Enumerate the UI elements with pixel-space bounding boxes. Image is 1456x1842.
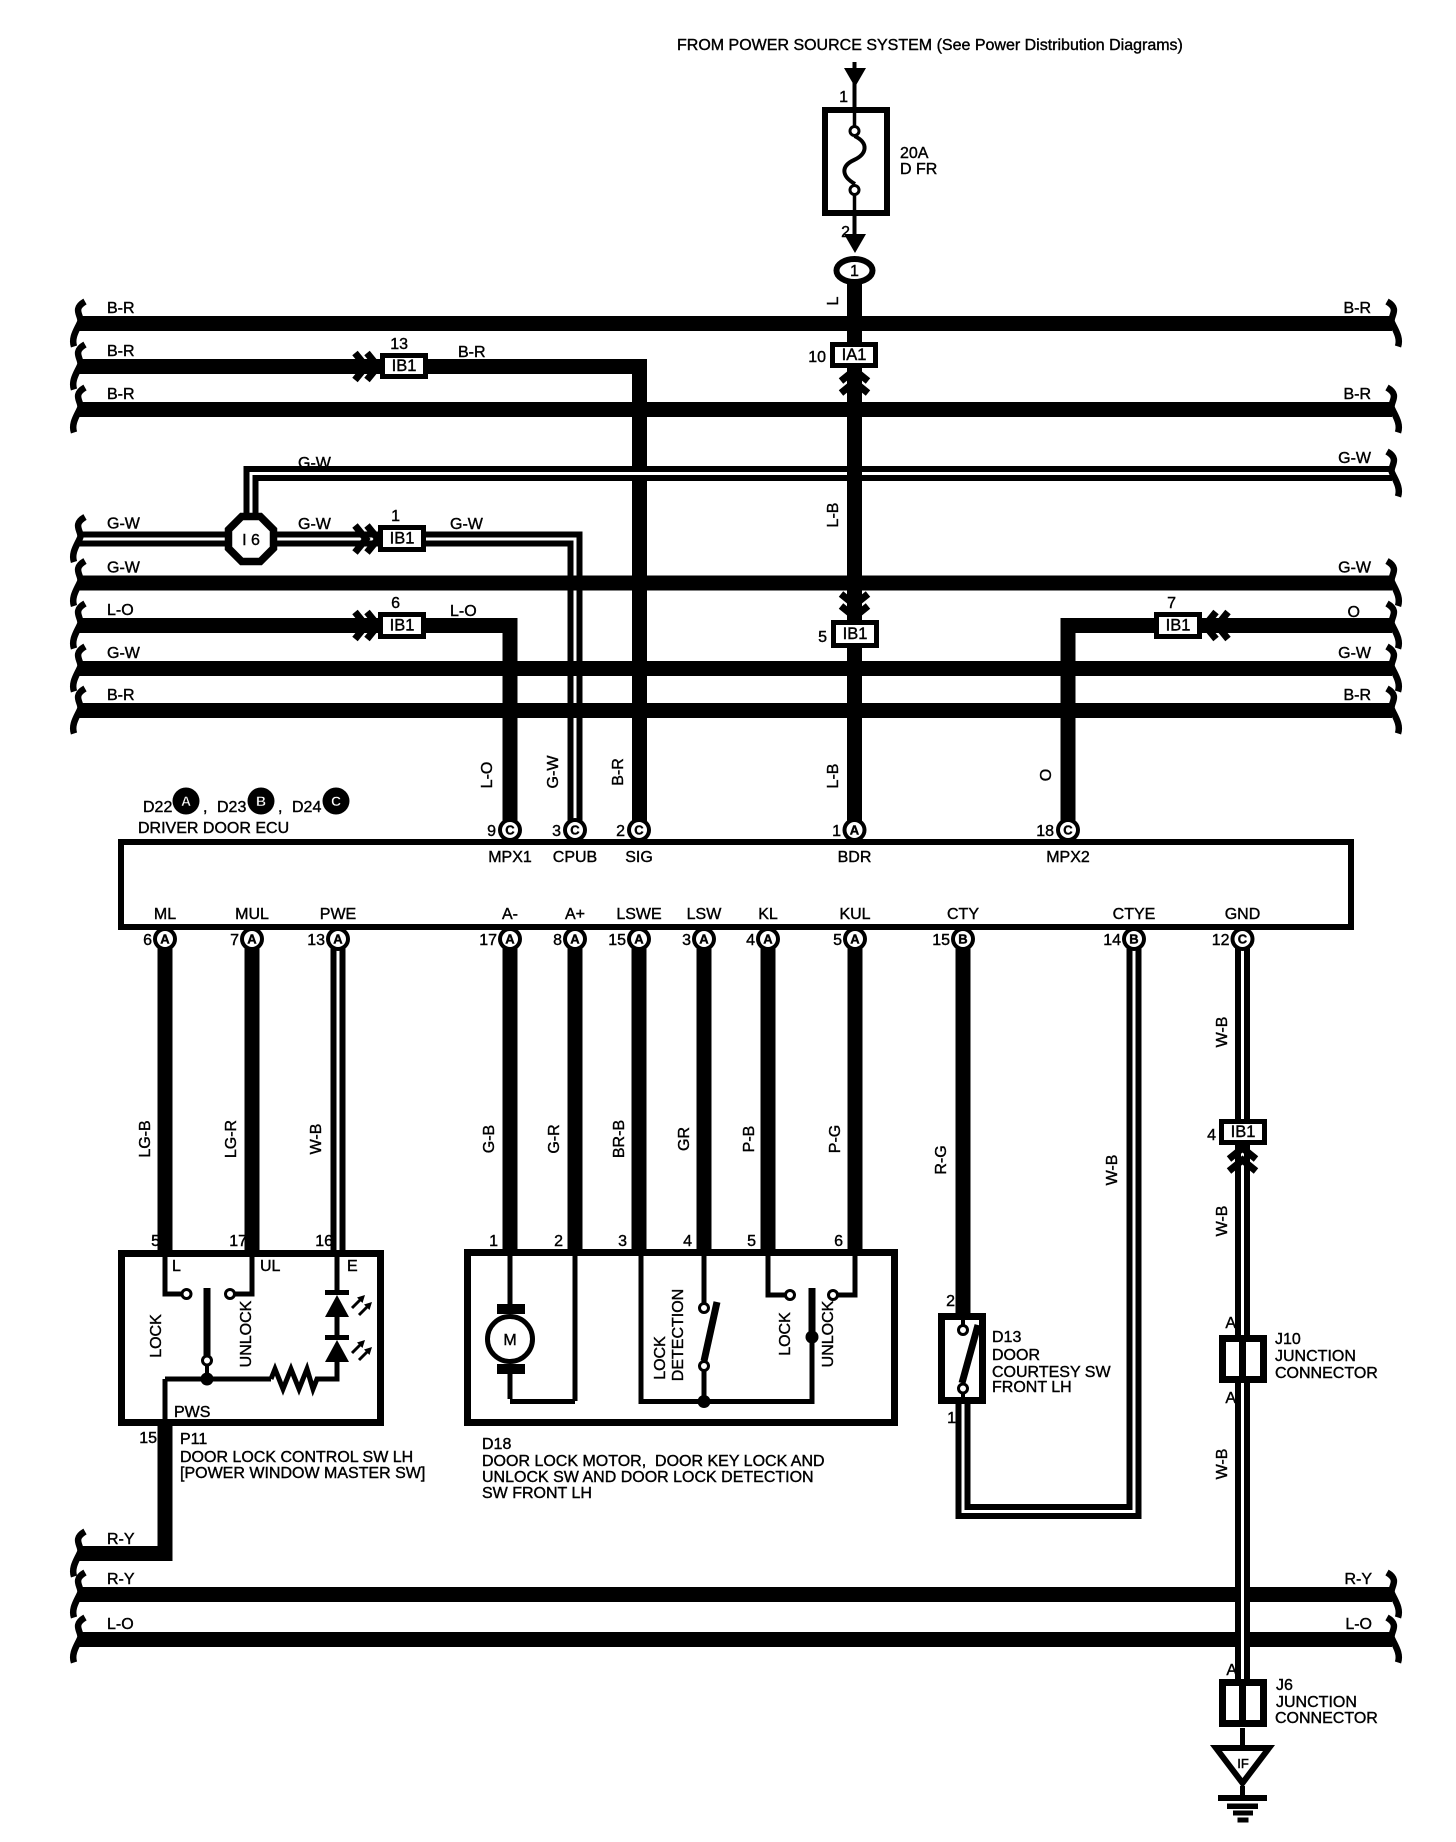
svg-text:L-O: L-O [107, 1616, 134, 1633]
svg-text:FRONT LH: FRONT LH [992, 1379, 1072, 1396]
svg-text:7: 7 [1167, 595, 1176, 612]
svg-text:A: A [850, 932, 860, 947]
svg-text:IB1: IB1 [392, 357, 417, 375]
svg-text:G-R: G-R [546, 1124, 563, 1153]
svg-text:9: 9 [487, 823, 496, 840]
svg-text:L: L [172, 1258, 181, 1275]
svg-text:IB1: IB1 [843, 625, 868, 643]
svg-text:6: 6 [391, 595, 400, 612]
svg-text:A+: A+ [565, 906, 585, 923]
svg-text:,: , [278, 799, 282, 816]
svg-text:I 6: I 6 [242, 532, 260, 549]
svg-text:A: A [160, 932, 170, 947]
svg-text:1: 1 [391, 508, 400, 525]
svg-text:BDR: BDR [838, 849, 872, 866]
svg-text:A: A [763, 932, 773, 947]
svg-text:1: 1 [489, 1233, 498, 1250]
svg-text:PWE: PWE [320, 906, 356, 923]
svg-text:GR: GR [676, 1127, 693, 1151]
svg-text:C: C [1063, 823, 1073, 838]
svg-text:DETECTION: DETECTION [670, 1289, 687, 1381]
svg-text:17: 17 [479, 932, 497, 949]
svg-text:A: A [181, 793, 191, 809]
svg-text:R-Y: R-Y [107, 1571, 135, 1588]
svg-text:B-R: B-R [107, 386, 135, 403]
svg-text:B-R: B-R [107, 343, 135, 360]
svg-text:LG-B: LG-B [137, 1120, 154, 1157]
svg-text:3: 3 [682, 932, 691, 949]
svg-text:MPX1: MPX1 [488, 849, 532, 866]
svg-text:2: 2 [946, 1293, 955, 1310]
svg-text:J6: J6 [1276, 1677, 1293, 1694]
svg-text:B-R: B-R [107, 687, 135, 704]
svg-text:A: A [634, 932, 644, 947]
svg-text:GND: GND [1225, 906, 1261, 923]
svg-text:B-R: B-R [458, 344, 486, 361]
svg-text:SW FRONT LH: SW FRONT LH [482, 1485, 592, 1502]
svg-text:6: 6 [834, 1233, 843, 1250]
svg-text:G-W: G-W [450, 516, 484, 533]
svg-text:IF: IF [1237, 1756, 1249, 1771]
svg-text:L-O: L-O [1345, 1616, 1372, 1633]
svg-text:M: M [503, 1332, 516, 1349]
svg-text:D18: D18 [482, 1436, 511, 1453]
svg-text:B: B [958, 932, 967, 947]
svg-text:R-Y: R-Y [107, 1531, 135, 1548]
svg-text:L: L [825, 296, 842, 305]
svg-text:D13: D13 [992, 1329, 1021, 1346]
svg-text:L-O: L-O [107, 602, 134, 619]
svg-text:CONNECTOR: CONNECTOR [1275, 1365, 1378, 1382]
svg-text:G-W: G-W [107, 560, 141, 577]
svg-text:B-R: B-R [1343, 386, 1371, 403]
svg-text:A: A [570, 932, 580, 947]
svg-text:BR-B: BR-B [611, 1120, 628, 1158]
svg-text:UL: UL [260, 1258, 281, 1275]
svg-text:MUL: MUL [235, 906, 269, 923]
svg-text:16: 16 [315, 1233, 333, 1250]
svg-text:3: 3 [552, 823, 561, 840]
svg-text:20A: 20A [900, 145, 929, 162]
svg-text:W-B: W-B [1104, 1155, 1121, 1186]
svg-text:A: A [699, 932, 709, 947]
svg-text:LSWE: LSWE [616, 906, 661, 923]
svg-text:A: A [1226, 1662, 1237, 1679]
svg-text:D24: D24 [292, 799, 321, 816]
svg-text:O: O [1348, 604, 1360, 621]
svg-text:IA1: IA1 [842, 346, 867, 364]
svg-text:JUNCTION: JUNCTION [1276, 1694, 1357, 1711]
svg-text:UNLOCK: UNLOCK [820, 1300, 837, 1367]
svg-text:W-B: W-B [1214, 1017, 1231, 1048]
svg-text:G-W: G-W [1338, 450, 1372, 467]
svg-text:5: 5 [833, 932, 842, 949]
svg-text:MPX2: MPX2 [1046, 849, 1090, 866]
svg-text:C: C [1238, 932, 1248, 947]
svg-text:A: A [1225, 1315, 1236, 1332]
svg-text:LG-R: LG-R [223, 1120, 240, 1158]
svg-text:D FR: D FR [900, 161, 937, 178]
svg-text:5: 5 [747, 1233, 756, 1250]
svg-text:5: 5 [818, 629, 827, 646]
svg-text:J10: J10 [1275, 1331, 1301, 1348]
svg-text:12: 12 [1212, 932, 1230, 949]
svg-text:18: 18 [1036, 823, 1054, 840]
svg-text:C: C [570, 823, 580, 838]
svg-text:ML: ML [154, 906, 176, 923]
svg-text:IB1: IB1 [1231, 1123, 1256, 1141]
svg-text:10: 10 [808, 349, 826, 366]
svg-text:G-W: G-W [298, 455, 332, 472]
svg-text:W-B: W-B [1214, 1206, 1231, 1237]
svg-text:B: B [1129, 932, 1138, 947]
svg-text:B-R: B-R [1343, 687, 1371, 704]
svg-text:R-G: R-G [933, 1145, 950, 1174]
svg-text:DOOR LOCK MOTOR, DOOR KEY LOC: DOOR LOCK MOTOR, DOOR KEY LOCK AND [482, 1453, 825, 1470]
svg-text:D23: D23 [217, 799, 246, 816]
svg-text:R-Y: R-Y [1344, 1571, 1372, 1588]
svg-text:DRIVER DOOR ECU: DRIVER DOOR ECU [138, 820, 289, 837]
svg-text:G-W: G-W [107, 516, 141, 533]
svg-text:6: 6 [143, 932, 152, 949]
svg-text:13: 13 [390, 336, 408, 353]
svg-text:P11: P11 [180, 1431, 207, 1448]
svg-text:2: 2 [616, 823, 625, 840]
svg-text:B: B [256, 793, 266, 809]
svg-text:B-R: B-R [1343, 300, 1371, 317]
svg-text:5: 5 [151, 1233, 160, 1250]
svg-text:13: 13 [307, 932, 325, 949]
svg-text:D22: D22 [143, 799, 172, 816]
svg-text:,: , [203, 799, 207, 816]
svg-text:CONNECTOR: CONNECTOR [1275, 1710, 1378, 1727]
svg-text:KUL: KUL [839, 906, 870, 923]
svg-text:G-B: G-B [481, 1125, 498, 1153]
svg-text:P-G: P-G [827, 1125, 844, 1153]
svg-text:IB1: IB1 [390, 617, 415, 635]
svg-text:CTY: CTY [947, 906, 979, 923]
svg-text:L-O: L-O [450, 603, 477, 620]
svg-text:1: 1 [832, 823, 841, 840]
svg-text:PWS: PWS [174, 1404, 210, 1421]
svg-text:7: 7 [230, 932, 239, 949]
svg-text:IB1: IB1 [390, 530, 415, 548]
svg-text:DOOR: DOOR [992, 1347, 1040, 1364]
svg-text:DOOR LOCK CONTROL SW LH: DOOR LOCK CONTROL SW LH [180, 1449, 413, 1466]
svg-text:4: 4 [1207, 1127, 1216, 1144]
svg-text:A-: A- [502, 906, 518, 923]
svg-text:KL: KL [758, 906, 778, 923]
svg-text:L-B: L-B [825, 764, 842, 789]
svg-text:1: 1 [839, 89, 848, 106]
svg-text:4: 4 [683, 1233, 692, 1250]
svg-text:LOCK: LOCK [777, 1312, 794, 1356]
svg-text:2: 2 [554, 1233, 563, 1250]
svg-text:FROM POWER SOURCE SYSTEM (See: FROM POWER SOURCE SYSTEM (See Power Dist… [677, 37, 1183, 54]
svg-text:4: 4 [746, 932, 755, 949]
svg-text:UNLOCK SW AND DOOR LOCK DETECT: UNLOCK SW AND DOOR LOCK DETECTION [482, 1469, 814, 1486]
svg-text:17: 17 [229, 1233, 247, 1250]
svg-text:SIG: SIG [625, 849, 653, 866]
svg-text:UNLOCK: UNLOCK [238, 1300, 255, 1367]
svg-text:W-B: W-B [308, 1124, 325, 1155]
svg-text:IB1: IB1 [1166, 617, 1191, 635]
svg-text:W-B: W-B [1214, 1449, 1231, 1480]
svg-text:15: 15 [608, 932, 626, 949]
svg-text:B-R: B-R [107, 300, 135, 317]
svg-text:CTYE: CTYE [1113, 906, 1156, 923]
svg-text:14: 14 [1103, 932, 1121, 949]
svg-text:JUNCTION: JUNCTION [1275, 1348, 1356, 1365]
svg-text:2: 2 [841, 224, 850, 241]
svg-text:E: E [347, 1258, 358, 1275]
svg-text:15: 15 [139, 1430, 157, 1447]
svg-text:1: 1 [850, 263, 859, 280]
svg-text:C: C [331, 793, 341, 809]
svg-text:LSW: LSW [687, 906, 723, 923]
svg-text:CPUB: CPUB [553, 849, 597, 866]
svg-text:A: A [505, 932, 515, 947]
svg-text:C: C [634, 823, 644, 838]
svg-text:A: A [247, 932, 257, 947]
svg-text:O: O [1038, 769, 1055, 781]
svg-text:G-W: G-W [545, 755, 562, 789]
svg-text:C: C [505, 823, 515, 838]
svg-text:L-B: L-B [825, 503, 842, 528]
svg-text:P-B: P-B [741, 1126, 758, 1153]
svg-text:8: 8 [553, 932, 562, 949]
svg-text:G-W: G-W [298, 516, 332, 533]
svg-text:15: 15 [932, 932, 950, 949]
svg-text:A: A [850, 823, 860, 838]
svg-text:L-O: L-O [479, 762, 496, 789]
svg-text:LOCK: LOCK [652, 1336, 669, 1380]
svg-text:G-W: G-W [1338, 560, 1372, 577]
svg-text:A: A [1225, 1390, 1236, 1407]
svg-text:G-W: G-W [107, 645, 141, 662]
svg-text:A: A [333, 932, 343, 947]
svg-text:3: 3 [618, 1233, 627, 1250]
svg-text:LOCK: LOCK [148, 1314, 165, 1358]
svg-text:1: 1 [947, 1410, 956, 1427]
svg-text:[POWER WINDOW MASTER SW]: [POWER WINDOW MASTER SW] [180, 1465, 425, 1482]
svg-text:B-R: B-R [610, 758, 627, 786]
svg-text:G-W: G-W [1338, 645, 1372, 662]
